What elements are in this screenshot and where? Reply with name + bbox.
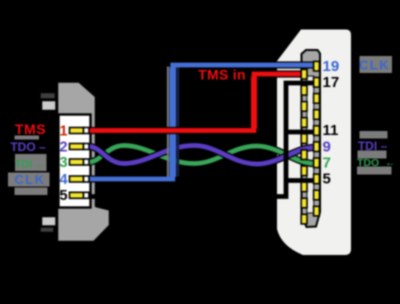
svg-text:4: 4 (59, 172, 67, 188)
svg-text:17: 17 (323, 74, 340, 91)
svg-text:9: 9 (323, 138, 331, 155)
svg-text:11: 11 (323, 122, 339, 139)
svg-text:TDO –: TDO – (10, 140, 46, 154)
svg-text:TMS in: TMS in (198, 67, 246, 83)
svg-text:1: 1 (59, 123, 67, 139)
svg-text:CLK: CLK (359, 58, 390, 73)
svg-text:19: 19 (323, 58, 340, 75)
svg-text:5: 5 (323, 171, 331, 188)
svg-text:TDI ←: TDI ← (15, 159, 47, 171)
svg-text:TMS: TMS (15, 121, 46, 137)
svg-text:2: 2 (59, 139, 67, 155)
svg-text:5: 5 (59, 188, 67, 204)
svg-text:CLK: CLK (14, 172, 45, 187)
svg-text:7: 7 (323, 154, 331, 171)
svg-text:3: 3 (59, 155, 67, 171)
